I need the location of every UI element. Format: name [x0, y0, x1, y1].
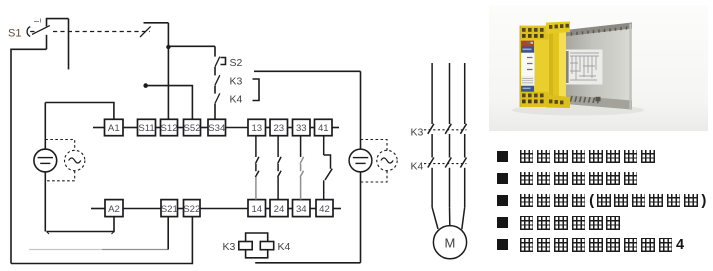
terminal labels row 2	[108, 204, 330, 215]
side vertical text strip	[566, 51, 569, 83]
wire top horizontal	[46, 18, 69, 20]
wire S21-S22	[178, 208, 184, 210]
svg-text:24: 24	[274, 204, 285, 215]
left edge shade	[520, 26, 522, 108]
contact 13-14	[255, 136, 259, 200]
svg-text:S52: S52	[183, 123, 200, 134]
terminal S22	[184, 200, 201, 217]
wire 23-33	[288, 127, 293, 129]
terminal A2	[105, 200, 123, 217]
wire S34-13	[226, 127, 249, 129]
wire vertical into S12	[167, 23, 169, 120]
svg-text:34: 34	[296, 204, 307, 215]
ac sine G2	[69, 158, 81, 163]
terminal S52	[184, 119, 201, 135]
ac source G4 dashed branch	[361, 140, 398, 183]
wire S11-S12	[156, 127, 161, 129]
wire A1-S11	[123, 127, 138, 129]
wire ch2 to S12 line	[144, 22, 169, 24]
photo background	[489, 5, 708, 131]
dc source G1	[34, 149, 57, 172]
svg-text:K4: K4	[230, 94, 243, 106]
terminal S34	[208, 119, 226, 135]
yellow front column	[520, 26, 550, 108]
schematic group	[11, 19, 361, 264]
terminal 42	[316, 200, 333, 217]
contact 41-42 NC	[324, 136, 333, 200]
wire dot to S52	[146, 86, 193, 120]
back bottom terminal row	[546, 95, 570, 109]
wire 42 stub	[333, 208, 341, 210]
S1 contact channel 2	[140, 26, 151, 37]
svg-text:23: 23	[273, 123, 284, 134]
svg-text:33: 33	[296, 123, 307, 134]
terminal 33	[293, 119, 311, 135]
product photo: yellow safety relay	[489, 5, 708, 131]
wire right supply upper	[360, 71, 362, 149]
terminal S12	[161, 119, 178, 135]
svg-text:M: M	[445, 236, 456, 251]
node junction dot on S12 line	[166, 45, 170, 49]
terminal 14	[248, 200, 266, 217]
terminal S21	[161, 200, 178, 217]
wire 13-23	[266, 127, 271, 129]
phase lower segments	[432, 168, 465, 207]
wire motor leads	[432, 207, 465, 229]
top vents	[572, 26, 627, 35]
wire coil feed to right supply	[254, 70, 361, 72]
contact 23-24	[278, 136, 282, 200]
reset button S2 contact	[215, 46, 226, 67]
contactor K4 three-pole contacts	[424, 158, 467, 168]
svg-text:K3: K3	[223, 241, 236, 253]
terminal 34	[293, 200, 311, 217]
wire left supply lower	[44, 172, 46, 232]
bullet row 5: 适用于最高安全等级4	[497, 238, 684, 252]
wire A1 stub	[93, 127, 105, 129]
contact K4 feedback	[215, 86, 220, 120]
coil block	[239, 71, 361, 262]
yellow middle wedge	[548, 24, 566, 107]
wire 33-41	[310, 127, 315, 129]
mechanical link dashed S1	[53, 31, 150, 33]
bullet row 4: 带输出触点反馈	[497, 216, 624, 230]
wire left loop: down-left from contact	[11, 49, 47, 263]
wire A2-S21	[123, 208, 161, 210]
contactor K3 three-pole contacts	[424, 124, 467, 134]
front bottom terminal block	[520, 92, 549, 107]
wire branch to reset chain	[168, 45, 215, 47]
output contacts	[255, 136, 332, 200]
wire S22-14	[200, 208, 248, 210]
terminal 13	[248, 119, 266, 135]
bullet row 1: 双通道急停按钮输入	[497, 150, 659, 164]
terminal 23	[270, 119, 288, 135]
S1 contact channel 1	[32, 19, 50, 50]
svg-text:K3: K3	[411, 127, 424, 139]
svg-text:41: 41	[318, 123, 329, 134]
front label: bottom blue strip	[521, 86, 535, 92]
phase line 2	[449, 63, 451, 124]
wire S52-S34	[201, 127, 209, 129]
device shadow	[512, 105, 644, 116]
contact 33-34	[300, 136, 304, 200]
svg-text:S12: S12	[160, 123, 177, 134]
schematic text labels	[8, 28, 455, 254]
svg-text:S1: S1	[8, 28, 21, 40]
bottom vents	[571, 96, 600, 103]
svg-text:K4: K4	[411, 161, 424, 173]
bullet row 3: 手动复位（复位按钮监控）	[497, 194, 709, 208]
svg-text:42: 42	[319, 204, 330, 215]
pushbutton S1 e-stop actuator	[27, 19, 40, 37]
svg-text:S21: S21	[161, 204, 178, 215]
three-phase motor branch	[424, 63, 467, 259]
svg-text:S22: S22	[183, 204, 200, 215]
contact K3 feedback	[215, 67, 220, 85]
back top terminal row	[546, 22, 570, 35]
terminal row link wires	[91, 128, 341, 209]
terminal S11	[138, 119, 156, 135]
front label: white panel with text rows	[521, 53, 535, 77]
wire A2 stub	[91, 208, 105, 210]
wire bottom horizontal to S22	[11, 217, 192, 264]
svg-text:A1: A1	[108, 123, 120, 134]
terminal A1	[105, 119, 124, 135]
wire A1 up-left	[45, 103, 114, 120]
coil K3	[239, 242, 252, 250]
ac sine G4	[381, 158, 393, 163]
terminal labels row 1	[108, 123, 329, 134]
wire 14-24	[266, 208, 271, 210]
gray bottom strip	[566, 95, 632, 110]
svg-text:13: 13	[251, 123, 262, 134]
motor M	[433, 226, 466, 259]
wire coil top frame	[246, 233, 268, 242]
front label: blue band	[521, 47, 535, 53]
mechanical link bracket K3 K4	[253, 79, 260, 101]
terminal 24	[270, 200, 288, 217]
gray top strip	[566, 23, 632, 37]
wire A2 to left supply	[47, 217, 115, 234]
coil K4	[260, 242, 273, 250]
node dangling junction dot	[143, 83, 148, 88]
front label: red	[521, 41, 535, 47]
wire right supply lower	[360, 172, 362, 263]
gray side panel	[566, 23, 632, 110]
wire bottom return	[255, 262, 360, 264]
svg-text:S2: S2	[230, 57, 243, 69]
wire 24-34	[288, 208, 293, 210]
wire left supply upper	[44, 103, 46, 150]
svg-text:A2: A2	[108, 204, 120, 215]
svg-text:14: 14	[251, 204, 262, 215]
svg-text:S11: S11	[138, 123, 154, 134]
phase mid segments	[432, 134, 465, 158]
svg-text:K4: K4	[278, 241, 291, 253]
right edge line	[629, 24, 631, 110]
svg-text:S34: S34	[208, 123, 226, 134]
wire gray S21 branch	[29, 217, 168, 250]
front label: terminal grid	[521, 76, 535, 85]
ac source G2 dashed branch	[45, 140, 85, 181]
terminal boxes	[105, 119, 334, 216]
din clip	[596, 97, 601, 102]
phase line 3	[464, 63, 466, 124]
wire 34-42	[310, 208, 316, 210]
wire S12-S52	[178, 127, 184, 129]
side wiring label	[566, 50, 603, 85]
wire dead-end stub	[68, 19, 70, 70]
terminal 41	[315, 119, 333, 135]
wire 41 stub	[332, 127, 339, 129]
front top terminal block	[520, 27, 549, 40]
svg-text:K3: K3	[230, 76, 243, 88]
wire coil bottom frame	[246, 250, 268, 258]
dc source G3	[349, 149, 372, 172]
phase line 1	[431, 63, 433, 124]
bullet row 2: 通道间短路监控	[497, 172, 641, 186]
